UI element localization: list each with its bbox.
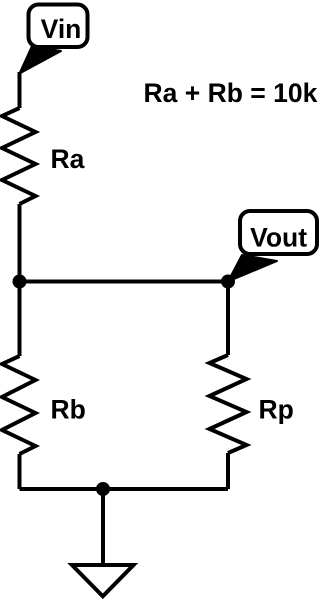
net label Vin (callout bubble with tail) (20, 5, 88, 74)
wire Rp to bottom rail (226, 453, 230, 489)
wire node A to node B (Vout rail) (20, 280, 229, 284)
node C (junction to ground) (96, 482, 110, 496)
resistor Rp (210, 355, 247, 453)
svg-text:Ra + Rb = 10k: Ra + Rb = 10k (144, 78, 318, 108)
svg-text:Vin: Vin (41, 14, 82, 44)
resistor Ra (2, 108, 36, 204)
bottom rail wire (20, 487, 229, 491)
wire node C to ground (101, 489, 105, 565)
wire from Vin tail to resistor Ra (18, 72, 22, 108)
node A (junction Vin divider tap) (13, 275, 27, 289)
node B (junction at Vout) (221, 275, 235, 289)
net label Vout (callout bubble with tail) (228, 211, 317, 282)
wire Ra to node A (18, 204, 22, 282)
wire node B to resistor Rp (226, 282, 230, 356)
resistor Rb (2, 356, 36, 454)
wire node A to resistor Rb (18, 282, 22, 357)
svg-text:Rb: Rb (51, 395, 86, 425)
wire Rb to bottom rail (18, 454, 22, 489)
ground (72, 565, 134, 596)
svg-text:Vout: Vout (250, 223, 307, 253)
svg-text:Rp: Rp (259, 395, 294, 425)
svg-text:Ra: Ra (51, 144, 85, 174)
